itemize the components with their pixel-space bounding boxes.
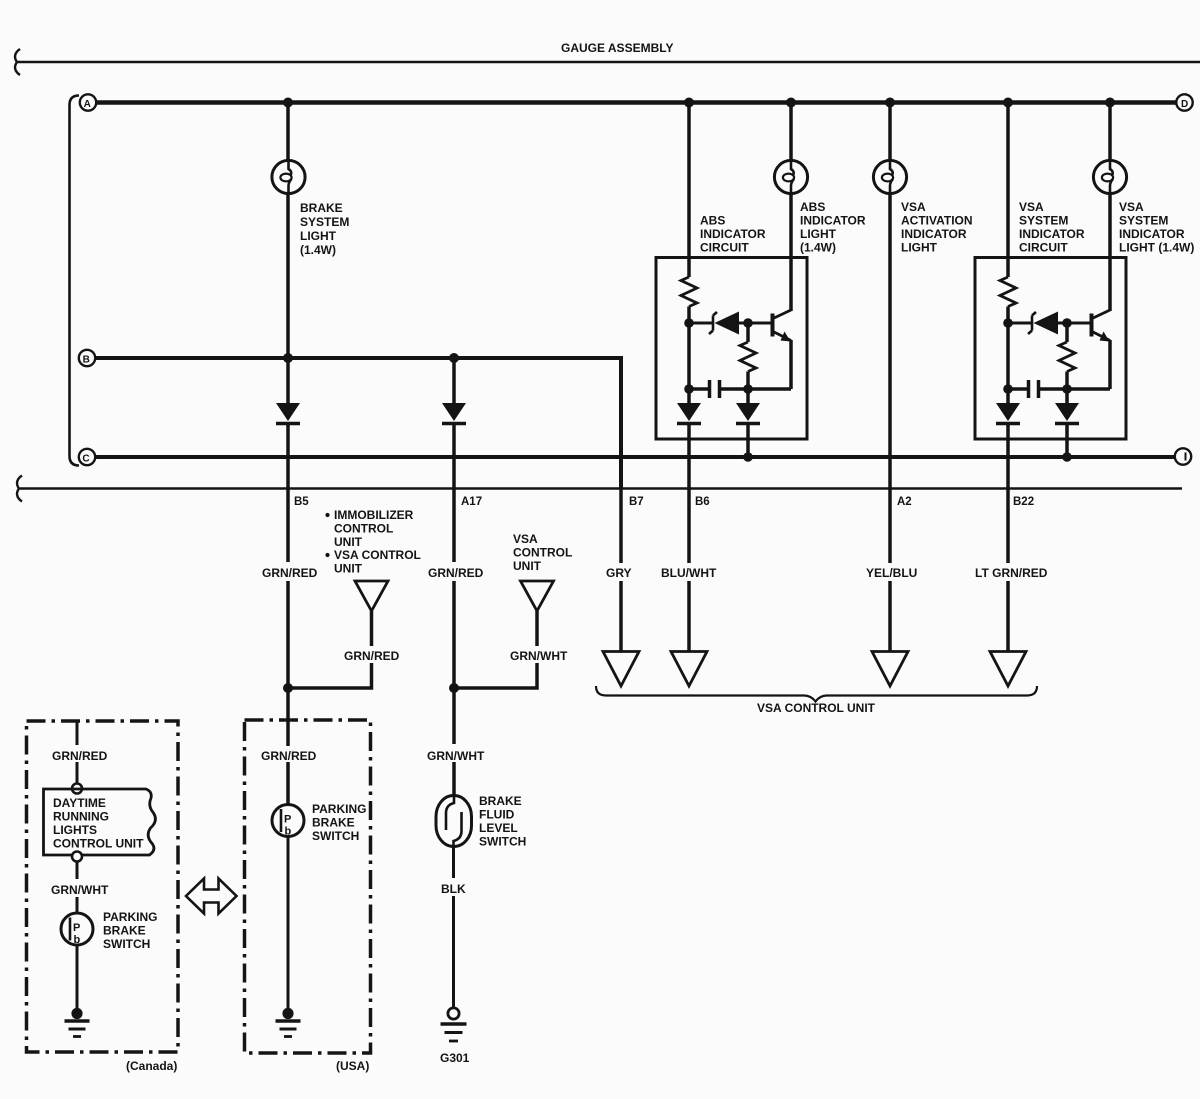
wire bus A to VSA system indicator light — [1108, 103, 1112, 162]
junction dot on bus A at x=1008 — [1003, 98, 1013, 108]
wire label GRN/WHT (tap 2) — [508, 646, 568, 663]
svg-text:BRAKE: BRAKE — [479, 794, 522, 808]
wire bus A to ABS indicator light — [789, 103, 793, 162]
transistor Q (box 2, NPN) — [1067, 310, 1110, 389]
wire bus B to diode — [452, 358, 456, 404]
wire node down to cap row — [687, 323, 691, 389]
svg-text:PARKING: PARKING — [103, 910, 157, 924]
svg-text:C: C — [82, 453, 89, 464]
wire left branch down across bus C to B22 — [1006, 425, 1010, 563]
wire node down to cap row — [1006, 323, 1010, 389]
label ABS INDICATOR LIGHT (1.4W) — [800, 200, 866, 255]
label DAYTIME RUNNING LIGHTS CONTROL UNIT — [53, 796, 144, 851]
junction dot on bus A at x=1110 — [1105, 98, 1115, 108]
junction dot (454,688) — [449, 683, 459, 693]
resistor R (middle, box 1) — [740, 323, 756, 389]
connector triangle (B7) — [603, 652, 639, 687]
wire resistor to node — [1006, 307, 1010, 324]
label IMMOBILIZER CONTROL UNIT / VSA CONTROL UNIT — [325, 508, 420, 576]
bus B wire (turns down at x=621 toward B7) — [95, 358, 621, 489]
wire triangle down to junction (454,688) — [454, 611, 537, 688]
diode (x=288, pointing down) — [276, 403, 300, 424]
VSA control unit brace — [596, 686, 1037, 702]
svg-text:A: A — [84, 99, 91, 110]
double arrow Canada/USA equivalence — [186, 879, 237, 914]
svg-text:GRN/RED: GRN/RED — [262, 566, 318, 580]
connector strip line — [20, 487, 1182, 490]
junction dot (288,688) — [283, 683, 293, 693]
junction dot on bus B at x=454 — [449, 353, 459, 363]
label PARKING BRAKE SWITCH (Canada) — [103, 910, 157, 951]
svg-text:LIGHT: LIGHT — [800, 227, 837, 241]
bus A wire — [96, 100, 1176, 104]
node A terminal circle — [80, 94, 96, 110]
svg-text:SWITCH: SWITCH — [479, 835, 526, 849]
svg-text:GRN/RED: GRN/RED — [428, 566, 484, 580]
wire to VSA control unit triangle (A2) — [888, 581, 892, 652]
wire box top down to terminal — [76, 721, 79, 784]
connector strip left end bracket — [17, 476, 22, 502]
node dot (1008,389) — [1003, 384, 1013, 394]
diode (x=748 in box, pointing down) — [736, 403, 760, 424]
svg-text:CONTROL: CONTROL — [334, 522, 393, 536]
brake fluid level switch — [436, 796, 472, 847]
svg-text:GRN/RED: GRN/RED — [52, 749, 108, 763]
gauge assembly boundary line — [16, 61, 1200, 64]
wire bus A to brake system light — [286, 103, 290, 162]
svg-text:CONTROL UNIT: CONTROL UNIT — [53, 837, 144, 851]
svg-text:VSA CONTROL UNIT: VSA CONTROL UNIT — [757, 701, 876, 715]
wire junction down to brake fluid level switch — [452, 688, 456, 797]
transistor Q (box 1, NPN) — [748, 310, 791, 389]
wire bus A to VSA activation indicator light — [888, 103, 892, 162]
junction dot on bus A at x=890 — [885, 98, 895, 108]
svg-text:PARKING: PARKING — [312, 802, 366, 816]
wire B7 to VSA control unit triangle — [619, 489, 623, 652]
wire terminal to parking brake switch (Canada) — [76, 862, 79, 914]
label VSA ACTIVATION INDICATOR LIGHT — [901, 200, 973, 255]
svg-text:P: P — [284, 814, 291, 826]
svg-text:VSA: VSA — [1119, 200, 1144, 214]
node dot (689,323) — [684, 318, 694, 328]
svg-text:GRN/WHT: GRN/WHT — [51, 883, 109, 897]
label brake system light — [300, 201, 349, 257]
wire bulb down across bus C and connector strip (A2) — [888, 194, 892, 564]
svg-text:(USA): (USA) — [336, 1059, 369, 1073]
wire to junction at y=688 — [286, 581, 290, 688]
parking brake switch (Canada) — [61, 913, 93, 946]
svg-text:BLK: BLK — [441, 882, 466, 896]
diode (x=1067 in box, pointing down) — [1055, 403, 1079, 424]
svg-text:B5: B5 — [294, 496, 309, 508]
svg-text:D: D — [1181, 99, 1188, 110]
svg-text:(1.4W): (1.4W) — [300, 243, 336, 257]
node B terminal circle — [79, 350, 95, 366]
label PARKING BRAKE SWITCH (USA) — [312, 802, 366, 843]
svg-text:BRAKE: BRAKE — [103, 924, 146, 938]
wire label GRY — [603, 563, 643, 580]
junction dot on bus C (748,457) — [743, 452, 753, 462]
svg-text:INDICATOR: INDICATOR — [1019, 227, 1085, 241]
svg-text:LT GRN/RED: LT GRN/RED — [975, 566, 1048, 580]
USA option dashed box — [245, 720, 371, 1053]
junction dot on bus A at x=791 — [786, 98, 796, 108]
svg-text:A17: A17 — [461, 496, 482, 508]
wire middle branch to bus C — [746, 425, 750, 457]
zener diode (box 1, pointing left) — [689, 312, 748, 335]
svg-text:GRN/RED: GRN/RED — [344, 649, 400, 663]
svg-text:B22: B22 — [1013, 496, 1034, 508]
wire label GRN/RED (tap 1) — [342, 646, 400, 663]
terminal circle (DRL unit bottom) — [72, 852, 82, 862]
wire node down to diode (middle, box1) — [746, 389, 750, 404]
svg-text:GRY: GRY — [606, 566, 632, 580]
connector triangle (B6) — [671, 652, 707, 687]
wire switch to ground G301 — [452, 847, 455, 1009]
wire label YEL/BLU — [863, 563, 923, 580]
svg-text:VSA: VSA — [901, 200, 926, 214]
svg-text:UNIT: UNIT — [334, 562, 363, 576]
svg-text:(Canada): (Canada) — [126, 1059, 177, 1073]
connector triangle (VSA control unit tap) — [521, 581, 554, 611]
ground (Canada) — [65, 1008, 90, 1037]
svg-text:UNIT: UNIT — [334, 535, 363, 549]
label ABS INDICATOR CIRCUIT — [700, 214, 766, 255]
wire node down to diode (middle, box2) — [1065, 389, 1069, 404]
svg-text:LIGHT: LIGHT — [901, 241, 938, 255]
bulb ABS indicator light (1.4W) — [774, 160, 807, 193]
node dot (748,323) — [743, 318, 753, 328]
ground G301 — [441, 1008, 467, 1041]
VSA system indicator circuit box outline — [975, 258, 1126, 440]
bulb VSA activation indicator light — [873, 160, 906, 193]
wire bus B to diode — [286, 358, 290, 404]
svg-text:BRAKE: BRAKE — [312, 816, 355, 830]
wire junction into USA box to parking brake switch — [286, 688, 290, 805]
svg-text:INDICATOR: INDICATOR — [700, 227, 766, 241]
svg-text:GAUGE ASSEMBLY: GAUGE ASSEMBLY — [561, 41, 673, 55]
svg-text:CIRCUIT: CIRCUIT — [700, 241, 749, 255]
diode (x=1008 in box, pointing down) — [996, 403, 1020, 424]
diode (x=454, pointing down) — [442, 403, 466, 424]
svg-text:P: P — [73, 922, 80, 934]
svg-text:B6: B6 — [695, 496, 710, 508]
node dot (1067,323) — [1062, 318, 1072, 328]
svg-text:B: B — [83, 354, 90, 365]
capacitor C (box 2) — [1029, 380, 1039, 398]
wire bulb to bus B — [286, 194, 290, 359]
svg-text:b: b — [285, 826, 292, 838]
connector triangle (B22) — [990, 652, 1026, 687]
wire bulb down into box to transistor collector — [789, 194, 793, 312]
parking brake switch (USA) — [272, 805, 304, 838]
svg-text:SYSTEM: SYSTEM — [1019, 214, 1068, 228]
capacitor row wire (box 2) — [1008, 387, 1110, 391]
wire bus A down into box to resistor — [1006, 103, 1010, 278]
ground (USA) — [276, 1008, 301, 1037]
bulb VSA system indicator light (1.4W) — [1093, 160, 1126, 193]
svg-text:IMMOBILIZER: IMMOBILIZER — [334, 508, 414, 522]
wire node down to diode (left, box2) — [1006, 389, 1010, 404]
node dot (1067,389) — [1062, 384, 1072, 394]
bus C wire — [95, 455, 1175, 459]
resistor R (left, box 1) — [681, 277, 697, 307]
svg-text:VSA: VSA — [1019, 200, 1044, 214]
ABS indicator circuit box outline — [656, 258, 807, 440]
junction dot on bus C (1067,457) — [1062, 452, 1072, 462]
capacitor row wire (box 1) — [689, 387, 791, 391]
terminal circle (DRL unit top) — [72, 784, 82, 794]
label VSA SYSTEM INDICATOR LIGHT (1.4W — [1119, 200, 1194, 255]
wire middle branch to bus C — [1065, 425, 1069, 457]
label VSA CONTROL UNIT (tap 2) — [513, 532, 572, 573]
wire label GRN/RED (USA) — [259, 746, 317, 763]
svg-text:UNIT: UNIT — [513, 559, 542, 573]
wire switch to ground (USA) — [287, 837, 290, 1011]
svg-text:LIGHTS: LIGHTS — [53, 823, 97, 837]
svg-text:BLU/WHT: BLU/WHT — [661, 566, 717, 580]
node dot (748,389) — [743, 384, 753, 394]
wire left branch down across bus C to B6 — [687, 425, 691, 563]
capacitor C (box 1) — [710, 380, 720, 398]
wire label GRN/RED (A17) — [426, 563, 484, 580]
svg-text:RUNNING: RUNNING — [53, 810, 109, 824]
zener diode (box 2, pointing left) — [1008, 312, 1067, 335]
svg-text:SWITCH: SWITCH — [312, 829, 359, 843]
wire node down to diode (left, box1) — [687, 389, 691, 404]
bulb brake system light (1.4W) — [272, 160, 305, 193]
wire triangle down to junction (288,688) — [288, 611, 372, 688]
label BRAKE FLUID LEVEL SWITCH — [479, 794, 526, 849]
wire label GRN/WHT (Canada) — [49, 880, 109, 897]
svg-text:ABS: ABS — [700, 214, 725, 228]
svg-text:ACTIVATION: ACTIVATION — [901, 214, 973, 228]
label VSA SYSTEM INDICATOR CIRCUIT — [1019, 200, 1085, 255]
resistor R (left, box 2) — [1000, 277, 1016, 307]
gauge assembly boundary left end bracket — [15, 49, 20, 75]
wire label GRN/RED (B5) — [260, 563, 318, 580]
wire to VSA control unit triangle (B22) — [1006, 581, 1010, 652]
wire bus A down into box to resistor — [687, 103, 691, 278]
svg-text:VSA: VSA — [513, 532, 538, 546]
svg-text:CONTROL: CONTROL — [513, 546, 572, 560]
wire label GRN/RED (Canada) — [50, 746, 108, 763]
wire to VSA control unit triangle (B6) — [687, 581, 691, 652]
svg-text:LIGHT (1.4W): LIGHT (1.4W) — [1119, 241, 1194, 255]
junction dot on bus B at x=288 — [283, 353, 293, 363]
svg-text:A2: A2 — [897, 496, 912, 508]
svg-text:INDICATOR: INDICATOR — [800, 214, 866, 228]
svg-text:b: b — [74, 934, 81, 946]
svg-text:LIGHT: LIGHT — [300, 229, 337, 243]
svg-text:ABS: ABS — [800, 200, 825, 214]
wire diode down across bus C and connector strip — [452, 425, 456, 562]
node C terminal circle — [79, 449, 95, 465]
svg-text:VSA CONTROL: VSA CONTROL — [334, 548, 421, 562]
svg-text:INDICATOR: INDICATOR — [1119, 227, 1185, 241]
wire label GRN/WHT (fluid) — [425, 746, 485, 763]
junction dot on bus A at x=288 — [283, 98, 293, 108]
svg-text:DAYTIME: DAYTIME — [53, 796, 106, 810]
svg-text:GRN/WHT: GRN/WHT — [510, 649, 568, 663]
wire label LT GRN/RED — [972, 563, 1048, 580]
node dot (689,389) — [684, 384, 694, 394]
wire label BLK — [439, 879, 469, 896]
wire switch to ground (Canada) — [76, 945, 79, 1010]
resistor R (middle, box 2) — [1059, 323, 1075, 389]
terminal circle (C row, right edge) — [1175, 448, 1191, 464]
terminal circle D (A row, right edge) — [1176, 94, 1192, 110]
wire to junction at y=688 — [452, 581, 456, 688]
wire bulb down into box to transistor collector — [1108, 194, 1112, 312]
wire resistor to node — [687, 307, 691, 324]
svg-text:GRN/WHT: GRN/WHT — [427, 749, 485, 763]
Canada option dashed box — [27, 721, 179, 1052]
svg-text:INDICATOR: INDICATOR — [901, 227, 967, 241]
svg-text:SWITCH: SWITCH — [103, 937, 150, 951]
wire diode down across bus C and connector strip — [286, 425, 290, 562]
svg-text:LEVEL: LEVEL — [479, 821, 518, 835]
svg-text:FLUID: FLUID — [479, 808, 515, 822]
svg-text:YEL/BLU: YEL/BLU — [866, 566, 917, 580]
wire label BLU/WHT — [658, 563, 720, 580]
connector triangle (A2) — [872, 652, 908, 687]
gauge assembly left bracket — [70, 96, 80, 466]
svg-text:SYSTEM: SYSTEM — [300, 215, 349, 229]
svg-text:SYSTEM: SYSTEM — [1119, 214, 1168, 228]
node dot (1008,323) — [1003, 318, 1013, 328]
connector triangle (immobilizer/VSA tap) — [355, 581, 388, 611]
svg-text:G301: G301 — [440, 1051, 470, 1065]
junction dot on bus A at x=689 — [684, 98, 694, 108]
diode (x=689 in box, pointing down) — [677, 403, 701, 424]
svg-text:(1.4W): (1.4W) — [800, 241, 836, 255]
svg-text:CIRCUIT: CIRCUIT — [1019, 241, 1068, 255]
daytime running lights control unit box (torn right edge) — [44, 789, 156, 855]
svg-text:B7: B7 — [629, 496, 644, 508]
svg-text:BRAKE: BRAKE — [300, 201, 343, 215]
svg-text:GRN/RED: GRN/RED — [261, 749, 317, 763]
